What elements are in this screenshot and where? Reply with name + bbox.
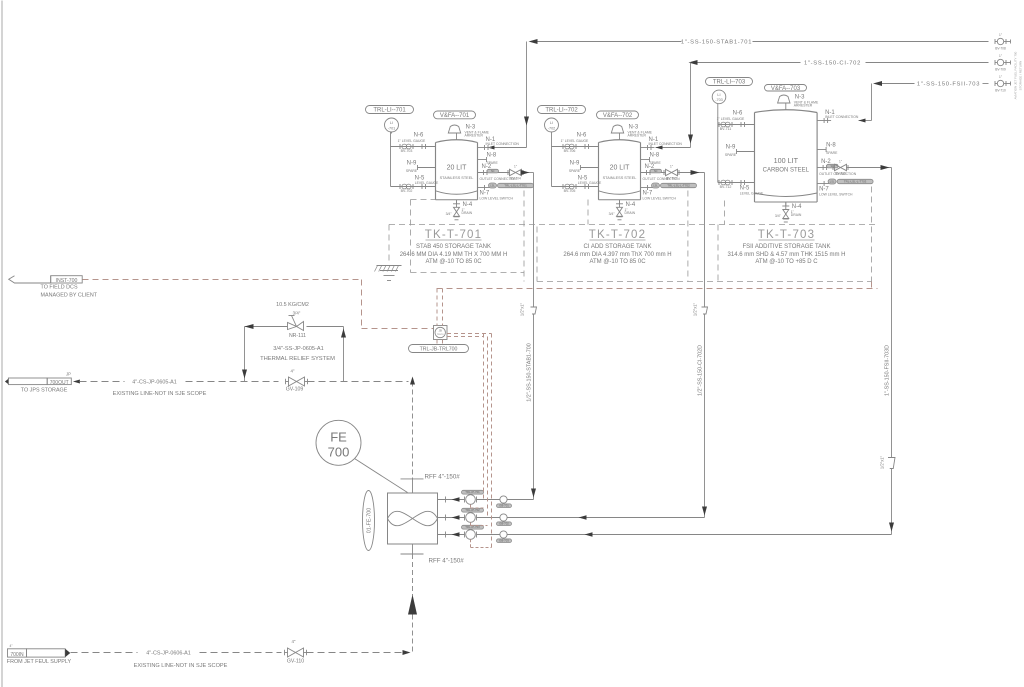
svg-text:N-8: N-8 [650, 153, 660, 159]
ground grade symbol [377, 265, 402, 267]
svg-text:1": 1" [999, 33, 1002, 37]
svg-text:N-6: N-6 [733, 111, 743, 117]
svg-text:4"-CS-JP-0605-A1: 4"-CS-JP-0605-A1 [132, 379, 176, 385]
svg-text:3/4"-SS-JP-0605-A1: 3/4"-SS-JP-0605-A1 [273, 346, 324, 352]
svg-text:100 LIT: 100 LIT [774, 156, 799, 165]
flow arrow left CI header [689, 60, 698, 65]
check valve GB-702 [500, 514, 507, 521]
svg-text:1" LEVEL GAUGE: 1" LEVEL GAUGE [717, 117, 745, 121]
instrument LI -702 [545, 118, 559, 132]
signal dashed INST-700 run [83, 279, 362, 281]
svg-text:EXISTING LINE-NOT IN SJE SCOPE: EXISTING LINE-NOT IN SJE SCOPE [113, 391, 207, 397]
nozzle N-8 spare TK-T-701 [478, 159, 487, 161]
svg-text:V&FA--701: V&FA--701 [440, 113, 470, 119]
nozzle N-6 level gauge TK-T-703 [718, 124, 755, 126]
svg-text:1/2"x1": 1/2"x1" [693, 302, 698, 316]
svg-text:GV-109: GV-109 [286, 387, 304, 393]
svg-text:-701: -701 [388, 126, 396, 130]
flow arrow down CI drop [688, 135, 693, 144]
svg-text:1": 1" [839, 160, 842, 164]
svg-text:ARRESTER: ARRESTER [628, 134, 647, 138]
valve BV-710 [994, 81, 996, 86]
svg-text:FROM JET FEUL SUPPLY: FROM JET FEUL SUPPLY [7, 659, 72, 665]
svg-text:ATM @-10 TO 85 0C: ATM @-10 TO 85 0C [425, 259, 482, 265]
svg-text:1"-SS-150-FSII-703D: 1"-SS-150-FSII-703D [885, 345, 891, 396]
boundary dashed long line y=225 [389, 224, 878, 226]
svg-text:SPARE: SPARE [826, 151, 838, 155]
svg-text:TRL-LI--703: TRL-LI--703 [713, 80, 746, 86]
svg-text:1/2"-SS-150-STAB1-700: 1/2"-SS-150-STAB1-700 [527, 343, 533, 401]
signal dashed LSL TK-T-701 [523, 191, 525, 282]
svg-text:LI: LI [717, 93, 720, 97]
svg-text:ARRESTER: ARRESTER [794, 104, 813, 108]
svg-text:AVIATION JET FUEL FACILITY 700: AVIATION JET FUEL FACILITY 700 [1014, 51, 1018, 99]
svg-text:BV-709: BV-709 [995, 68, 1006, 72]
svg-text:INLET CONNECTION: INLET CONNECTION [486, 142, 520, 146]
svg-text:RFF 4"-150#: RFF 4"-150# [429, 558, 465, 565]
pipe 1"-SS-150-FSII-703 top header [882, 83, 915, 85]
injection fitting TRL-IP-703 [464, 532, 466, 538]
off-page connector 700IN [8, 649, 27, 657]
off-page connector INST-700 [9, 276, 51, 283]
level bridle TK-T-703 [717, 104, 719, 183]
svg-text:4": 4" [291, 639, 295, 644]
sheet left border [1, 1, 3, 687]
svg-text:TRL-IP-701: TRL-IP-701 [465, 490, 480, 494]
svg-text:V&FA--703: V&FA--703 [771, 86, 801, 92]
flow arrow into 700OUT [73, 380, 80, 384]
flow arrow down relief return [242, 370, 247, 379]
svg-text:3/4": 3/4" [446, 212, 453, 216]
instrument LI -701 [385, 118, 399, 132]
svg-text:STAINLESS STEEL: STAINLESS STEEL [603, 176, 637, 180]
signal dashed junction box risers [436, 289, 438, 326]
svg-text:LI: LI [550, 121, 553, 125]
svg-text:LSL: LSL [830, 179, 835, 183]
nozzle N-3 vent & flame arrester TK-T-702 [619, 133, 621, 140]
flow arrow down STAB1 dosing [531, 489, 536, 498]
svg-text:BV-707: BV-707 [666, 177, 677, 181]
svg-text:GB-702: GB-702 [499, 522, 509, 526]
signal dashed LSL TK-T-703 [871, 187, 873, 282]
svg-text:LSL: LSL [490, 183, 495, 187]
pipe 1"-SS-150-FSII-703D drop [891, 168, 893, 458]
svg-text:TK-T-702: TK-T-702 [589, 229, 647, 241]
boundary dashed tank3 left [717, 225, 719, 282]
svg-text:LOW LEVEL SWITCH: LOW LEVEL SWITCH [480, 197, 514, 201]
nozzle N-9 spare TK-T-701 [418, 167, 436, 169]
valve BV-713 [832, 165, 834, 170]
flow arrow relief line [245, 324, 254, 329]
svg-text:N-6: N-6 [414, 133, 424, 139]
svg-text:STAB 450 STORAGE TANK: STAB 450 STORAGE TANK [416, 244, 491, 250]
boundary dashed tank2 left [536, 227, 538, 282]
svg-text:4"-CS-JP-0606-A1: 4"-CS-JP-0606-A1 [146, 650, 190, 656]
signal tubing injection hooks [470, 505, 472, 509]
reducer 1/2x1 FSII [888, 458, 895, 469]
tag TRL-JB-TRL700 [409, 345, 469, 353]
nozzle N-5 level gauge TK-T-703 [718, 182, 755, 184]
relief valve NR-111 [288, 323, 297, 330]
svg-text:CARBON STEEL: CARBON STEEL [763, 168, 810, 174]
pipe 4"-CS-JP-0605-A1 existing [80, 381, 125, 383]
wire FSII drop to TK-T-703 N-1 [871, 84, 873, 121]
tag SC TK-T-703 [827, 164, 839, 168]
svg-text:BV-712: BV-712 [720, 185, 732, 189]
boundary dashed tank1 drain box [410, 200, 412, 273]
nozzle N-6 level gauge TK-T-702 [552, 146, 599, 148]
valve GV-110 [284, 650, 286, 656]
flow arrow down FSII dosing [889, 523, 894, 532]
svg-text:GB-703: GB-703 [499, 539, 509, 543]
svg-text:JB: JB [439, 329, 442, 333]
static mixer FE-700 body [388, 493, 438, 544]
tag LSL TK-T-703 [828, 179, 836, 184]
pipe dosing injection line CI [438, 517, 465, 519]
svg-text:1"-SS-150-STAB1-701: 1"-SS-150-STAB1-701 [681, 39, 752, 45]
signal dashed junction box to injectors [447, 333, 492, 335]
svg-text:TO JPS STORAGE: TO JPS STORAGE [21, 387, 68, 393]
svg-text:SC: SC [654, 169, 658, 173]
svg-text:700IN: 700IN [10, 652, 24, 658]
pipe 4"-CS-JP-0606-A1 existing [71, 652, 138, 654]
tank TK-T-702 vessel [598, 143, 600, 200]
off-page connector 700OUT [5, 378, 9, 384]
flow arrow up into 700OUT line [410, 377, 415, 385]
wire STAB1 drop to TK-T-701 N-1 [526, 42, 528, 148]
svg-text:FE: FE [330, 430, 347, 445]
svg-text:3/4": 3/4" [609, 212, 616, 216]
signal dashed LSL TK-T-702 [687, 191, 689, 282]
svg-text:LOW LEVEL SWITCH: LOW LEVEL SWITCH [819, 193, 853, 197]
svg-text:TRL-LSL-L-T703: TRL-LSL-L-T703 [844, 180, 867, 184]
flow arrow outlet TK-T-703 [881, 165, 890, 170]
nozzle N-3 vent & flame arrester TK-T-701 [456, 133, 458, 140]
svg-text:ATM @-10 TO 85 0C: ATM @-10 TO 85 0C [589, 259, 646, 265]
svg-text:EXISTING LINE-NOT IN SJE SCOPE: EXISTING LINE-NOT IN SJE SCOPE [134, 663, 228, 669]
svg-text:TO FIELD DCS: TO FIELD DCS [41, 285, 78, 291]
nozzle N-7 low level switch TK-T-702 [641, 187, 653, 189]
wire CI drop to TK-T-702 N-1 [690, 63, 692, 148]
flow arrow left FSII header [873, 81, 882, 86]
svg-text:BV-703: BV-703 [401, 149, 413, 153]
check valve GB-703 [500, 531, 507, 538]
svg-text:-703: -703 [715, 98, 723, 102]
svg-text:1": 1" [670, 165, 673, 169]
svg-text:BV-705: BV-705 [564, 189, 576, 193]
tag TRL-LI--703 [706, 78, 753, 86]
nozzle N-4 drain TK-T-701 [456, 200, 458, 204]
svg-text:GV-110: GV-110 [287, 659, 304, 665]
reducer 1/2x1 CI [702, 307, 708, 314]
nozzle N-6 level gauge TK-T-701 [391, 146, 436, 148]
svg-text:TRL-IP-702: TRL-IP-702 [465, 508, 480, 512]
svg-text:NR-111: NR-111 [289, 333, 306, 339]
svg-text:STAINLESS STEEL: STAINLESS STEEL [440, 176, 474, 180]
instrument LI -703 [712, 90, 726, 104]
tank TK-T-701 vessel [435, 143, 437, 200]
svg-text:CI ADD STORAGE TANK: CI ADD STORAGE TANK [583, 244, 651, 250]
boundary dashed line y=281 [537, 281, 872, 283]
level bridle TK-T-701 [390, 132, 392, 187]
flow arrow into N-1 TK-T-702 [656, 146, 663, 150]
tag LSL TK-T-702 [652, 183, 660, 188]
svg-text:BV-711: BV-711 [720, 127, 732, 131]
level bridle TK-T-702 [551, 132, 553, 187]
flow arrow left STAB1 header [529, 39, 538, 44]
wire LI T701 to bridle [391, 132, 393, 134]
svg-text:LSL: LSL [653, 183, 658, 187]
svg-text:20 LIT: 20 LIT [610, 165, 631, 172]
flow arrow into N-1 TK-T-703 [859, 119, 866, 123]
svg-text:BV-704: BV-704 [510, 177, 521, 181]
svg-text:4": 4" [290, 369, 294, 374]
svg-text:1/2"-SS-150-CI-702D: 1/2"-SS-150-CI-702D [698, 345, 704, 396]
svg-text:THERMAL RELIEF SYSTEM: THERMAL RELIEF SYSTEM [260, 356, 335, 362]
valve BV-708 [994, 39, 996, 44]
pipe dosing injection line STAB1 [438, 499, 465, 501]
pipe 1/2"-SS-150-CI-702D drop [704, 173, 706, 308]
svg-text:3/4": 3/4" [775, 214, 782, 218]
svg-text:TRL-LSL-L-T701: TRL-LSL-L-T701 [504, 184, 527, 188]
reducer 1/2x1 STAB1 [531, 307, 537, 314]
flow arrow into N-1 TK-T-701 [488, 146, 495, 150]
tag SC TK-T-701 [487, 169, 499, 173]
signal dashed long line y=288 [437, 288, 878, 290]
injection fitting TRL-IP-701 [464, 497, 466, 503]
svg-text:20 LIT: 20 LIT [447, 165, 468, 172]
svg-text:314.6 mm SHD & 4.57 mm THK 151: 314.6 mm SHD & 4.57 mm THK 1515 mm H [728, 252, 846, 258]
pipe RFF vertical through mixer [412, 382, 414, 479]
nozzle N-1 inlet connection TK-T-701 [478, 147, 492, 149]
svg-text:N-8: N-8 [487, 153, 497, 159]
tank TK-T-703 vessel [754, 113, 756, 203]
svg-text:DRAIN: DRAIN [791, 213, 802, 217]
svg-text:700: 700 [328, 445, 350, 460]
flow arrow outlet TK-T-702 [691, 170, 700, 175]
svg-text:TRL-LSL-L-T702: TRL-LSL-L-T702 [667, 184, 690, 188]
svg-text:N-9: N-9 [726, 145, 736, 151]
injection fitting TRL-IP-702 [464, 515, 466, 521]
nozzle N-8 spare TK-T-703 [817, 149, 826, 151]
svg-text:700OUT: 700OUT [50, 380, 69, 386]
tag V&FA--701 [434, 111, 476, 119]
svg-text:1": 1" [514, 165, 517, 169]
nozzle N-4 drain TK-T-702 [619, 200, 621, 204]
svg-text:TRL70: TRL70 [437, 334, 444, 336]
check valve GB-701 [500, 496, 507, 503]
svg-text:LI: LI [390, 121, 393, 125]
nozzle N-7 low level switch TK-T-703 [817, 183, 829, 185]
svg-text:1": 1" [999, 75, 1002, 79]
svg-text:BV-713: BV-713 [835, 172, 846, 176]
svg-text:4": 4" [10, 644, 13, 648]
svg-text:RFF 4"-150#: RFF 4"-150# [425, 474, 461, 481]
svg-text:SC: SC [491, 169, 495, 173]
valve BV-707 [663, 170, 665, 175]
svg-text:1/2"x1": 1/2"x1" [880, 455, 885, 469]
svg-text:N-8: N-8 [826, 143, 836, 149]
svg-text:N-9: N-9 [570, 161, 580, 167]
tag LSL TK-T-701 [489, 183, 497, 188]
flow arrow down STAB1 drop [524, 117, 529, 126]
nozzle N-1 inlet connection TK-T-703 [817, 120, 831, 122]
svg-text:3/4": 3/4" [293, 311, 301, 316]
svg-text:10.5 KG/CM2: 10.5 KG/CM2 [276, 302, 309, 308]
boundary dashed left edge + earth [388, 225, 390, 265]
svg-text:INLET CONNECTION: INLET CONNECTION [825, 115, 859, 119]
nozzle N-9 spare TK-T-702 [581, 167, 599, 169]
nozzle N-1 inlet connection TK-T-702 [641, 147, 655, 149]
svg-text:SPARE: SPARE [406, 169, 418, 173]
nozzle N-8 spare TK-T-702 [641, 159, 650, 161]
svg-text:LOW LEVEL SWITCH: LOW LEVEL SWITCH [643, 197, 677, 201]
tag TRL-LSL-L-T702 [661, 183, 697, 187]
svg-text:BV-710: BV-710 [995, 89, 1006, 93]
svg-text:JP: JP [66, 372, 71, 377]
nozzle N-5 level gauge TK-T-701 [391, 186, 436, 188]
svg-text:1"-SS-150-FSII-703: 1"-SS-150-FSII-703 [917, 81, 980, 87]
tag V&FA--703 [765, 85, 807, 92]
svg-text:LEVEL GAUGE: LEVEL GAUGE [740, 192, 764, 196]
svg-text:BV-708: BV-708 [995, 47, 1006, 51]
svg-text:TK-T-703: TK-T-703 [758, 229, 816, 241]
nozzle N-3 vent & flame arrester TK-T-703 [785, 103, 787, 110]
flow arrow up relief inlet [341, 329, 346, 338]
svg-text:LEVEL GAUGE: LEVEL GAUGE [415, 181, 439, 185]
pipe 1/2"-SS-150-STAB1-700 drop [533, 173, 535, 308]
nozzle N-4 drain TK-T-703 [785, 202, 787, 206]
svg-text:1/2"x1": 1/2"x1" [520, 302, 525, 316]
svg-text:01-FE-700: 01-FE-700 [367, 508, 373, 533]
thermal relief loop [245, 326, 288, 328]
pipe 1"-SS-150-CI-702 top header [698, 62, 801, 64]
pipe 1"-SS-150-STAB1-701 top header [538, 41, 682, 43]
svg-text:V&FA--702: V&FA--702 [603, 113, 633, 119]
svg-text:INLET CONNECTION: INLET CONNECTION [649, 142, 683, 146]
junction box TRL-JB-TRL700 [434, 326, 448, 340]
svg-text:1"-SS-150-CI-702: 1"-SS-150-CI-702 [804, 60, 861, 66]
svg-text:ATM @-10 TO +85 D C: ATM @-10 TO +85 D C [755, 259, 818, 265]
svg-text:264.6 mm DIA 4.397 mm ThX 700: 264.6 mm DIA 4.397 mm ThX 700 mm H [563, 252, 671, 258]
svg-text:DRAIN: DRAIN [462, 211, 473, 215]
svg-text:LEVEL GAUGE: LEVEL GAUGE [578, 181, 602, 185]
svg-text:STORAGE / RETURN: STORAGE / RETURN [1019, 61, 1023, 91]
tag V&FA--702 [597, 111, 639, 119]
leader FE-700 to mixer [355, 459, 408, 493]
svg-text:TRL-LI--701: TRL-LI--701 [373, 108, 406, 114]
tag TRL-LI--701 [366, 106, 414, 114]
svg-text:TRL-LI--702: TRL-LI--702 [545, 108, 578, 114]
svg-text:TRL-JB-TRL700: TRL-JB-TRL700 [420, 346, 458, 352]
svg-text:N-6: N-6 [577, 133, 587, 139]
flow arrow up to 700OUT [408, 595, 417, 615]
nozzle N-2 outlet connection TK-T-702 [641, 172, 665, 174]
svg-text:INST-700: INST-700 [56, 278, 78, 284]
svg-text:N-9: N-9 [407, 161, 417, 167]
svg-text:ARRESTER: ARRESTER [465, 134, 484, 138]
nozzle N-7 low level switch TK-T-701 [478, 187, 490, 189]
svg-text:SPARE: SPARE [569, 169, 581, 173]
svg-text:264.6 MM DIA 4.19 MM TH X 700: 264.6 MM DIA 4.19 MM TH X 700 MM H [400, 252, 508, 258]
svg-text:-702: -702 [548, 126, 556, 130]
svg-text:GB-701: GB-701 [499, 504, 509, 508]
nozzle N-2 outlet connection TK-T-703 [817, 167, 833, 169]
tag TRL-LSL-L-T701 [498, 183, 534, 187]
svg-text:BV-706: BV-706 [564, 149, 576, 153]
svg-text:1" LEVEL GAUGE: 1" LEVEL GAUGE [561, 139, 589, 143]
valve BV-709 [994, 60, 996, 65]
nozzle N-9 spare TK-T-703 [737, 151, 755, 153]
flow arrow into riser [403, 650, 411, 655]
tag TRL-LSL-L-T703 [837, 179, 873, 183]
svg-text:FSII ADDITIVE STORAGE TANK: FSII ADDITIVE STORAGE TANK [742, 244, 830, 250]
svg-text:1" LEVEL GAUGE: 1" LEVEL GAUGE [398, 139, 426, 143]
flow arrow down CI dosing [702, 507, 707, 516]
tag 01-FE-700 [363, 491, 375, 551]
nozzle N-2 outlet connection TK-T-701 [478, 172, 509, 174]
pipe dosing injection line FSII [438, 534, 465, 536]
svg-text:DRAIN: DRAIN [625, 211, 636, 215]
svg-text:MANAGED BY CLIENT: MANAGED BY CLIENT [41, 293, 98, 299]
svg-text:BV-702: BV-702 [401, 189, 413, 193]
valve GV-109 [285, 379, 287, 385]
nozzle N-5 level gauge TK-T-702 [552, 186, 599, 188]
instrument FE 700 [316, 420, 361, 465]
svg-text:TK-T-701: TK-T-701 [425, 229, 483, 241]
svg-text:SPARE: SPARE [725, 153, 737, 157]
tag SC TK-T-702 [650, 169, 662, 173]
tag TRL-LI--702 [538, 106, 586, 114]
valve BV-704 [507, 170, 509, 175]
svg-text:1": 1" [999, 54, 1002, 58]
flow arrow outlet TK-T-701 [521, 170, 530, 175]
